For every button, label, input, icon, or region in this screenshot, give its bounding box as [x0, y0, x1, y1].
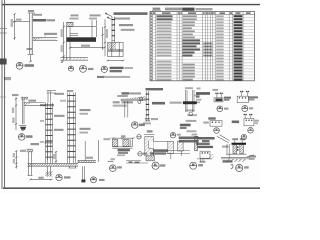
detail H cap — [21, 96, 28, 98]
S-mark and bubble bottom right — [231, 164, 249, 171]
eaves hatched strip 2 — [178, 141, 184, 151]
roof slab to left — [121, 98, 146, 100]
elevation posts inner dots — [237, 147, 239, 148]
detail C bubble title dark text — [110, 67, 124, 69]
eaves hatched strip 1 — [168, 141, 174, 153]
detail A wall double line — [29, 13, 31, 55]
detail B left dim — [63, 22, 65, 60]
detail H slab right — [24, 102, 45, 104]
column below slab left — [47, 166, 49, 175]
detail A annotation row1 — [33, 14, 42, 16]
detail J cap — [27, 148, 33, 150]
detail B top annotation rows — [71, 14, 79, 16]
junction text left — [170, 102, 182, 104]
row2 mid dark text — [232, 121, 239, 124]
left border tick y28 — [0, 28, 7, 30]
ladder right ties — [67, 95, 75, 162]
elevation leader right — [247, 155, 255, 157]
table small left caption — [153, 8, 161, 10]
hatch ticks below elevation — [227, 159, 230, 162]
eaves horizontal lines — [166, 150, 190, 152]
coping hatched block left — [112, 139, 117, 146]
left border tick y33 — [0, 32, 7, 34]
detail J top texts — [31, 143, 40, 145]
elevation dark top bar — [232, 143, 247, 145]
table narrow cols marks — [203, 43, 212, 57]
detail A wall tick pair — [27, 47, 33, 49]
detail A slab hatch — [33, 38, 44, 41]
sheet top border line — [2, 4, 261, 6]
detail A top text — [28, 10, 34, 12]
elevation left small text — [222, 146, 229, 148]
B2 marks right — [255, 120, 259, 122]
detail B horizontal dim — [70, 47, 105, 49]
detail C left dim — [102, 27, 104, 50]
detail C bottom dim — [108, 60, 124, 62]
coping hatched block right — [123, 139, 129, 146]
dark text right of wall — [152, 102, 165, 105]
ladder left side texts — [54, 115, 65, 117]
table colA bold first rows — [157, 15, 173, 20]
detail A bottom dim stub — [30, 55, 32, 62]
downstand wall below slab — [124, 101, 126, 118]
detail B bubble 1 — [68, 66, 73, 71]
detail A slab lines — [33, 37, 58, 39]
member top dim — [144, 134, 155, 136]
detail C foundation rect — [108, 43, 124, 57]
B1 bubble — [214, 128, 220, 134]
detail B mid ledge — [70, 33, 78, 35]
eaves bubble bottom — [190, 162, 203, 169]
table frame — [150, 11, 254, 80]
elevation hatched post 2 — [240, 145, 244, 154]
member base dark blob — [146, 156, 155, 161]
detail A bubble — [16, 62, 34, 69]
junction verticals — [185, 90, 187, 112]
roof detail left texts — [122, 92, 130, 94]
detail A slab text — [44, 33, 57, 35]
F2 small lintel drawing — [200, 151, 210, 158]
elevation left verticals — [226, 144, 228, 155]
row1 long dark text — [196, 92, 210, 95]
detail C bubble — [97, 66, 133, 78]
detail H bottom tick — [21, 130, 24, 131]
sheet left border double line — [1, 0, 3, 189]
detail H left dim — [15, 97, 17, 130]
dark label below elevation — [223, 160, 233, 162]
ladder left ties — [46, 108, 53, 162]
detail A left dim text — [16, 19, 22, 21]
detail A wall bottom cap — [28, 54, 34, 56]
table colC grey entries — [216, 15, 224, 80]
table title row — [165, 8, 183, 11]
elevation left diagonal leaders — [217, 136, 229, 143]
bubble mid x113 — [108, 158, 122, 171]
detail B bubble 2 with text — [80, 65, 94, 72]
coping bubble top — [137, 135, 141, 139]
detail C mid text — [119, 24, 133, 26]
ladder right top marks — [67, 90, 74, 92]
lintel A2 — [237, 91, 258, 103]
A1 text above — [213, 89, 219, 91]
coping right wall lines — [130, 139, 132, 146]
detail A wall cap — [28, 12, 36, 14]
detail J leader — [46, 145, 48, 161]
roof detail top dark text — [146, 88, 164, 90]
detail C foundation dark hatch — [108, 43, 116, 49]
A1 dark text right — [224, 97, 231, 99]
elevation mid line — [226, 153, 247, 155]
ladder left top text — [55, 93, 65, 95]
A2 leader dots above — [240, 91, 242, 93]
row1 left tiny texts — [197, 88, 201, 90]
detail C column ties — [112, 19, 115, 41]
ladder left rails — [45, 103, 47, 164]
coping lower lines — [112, 146, 132, 148]
B1 text left — [203, 122, 208, 124]
member beam notch — [149, 141, 154, 148]
roof detail tall wall — [145, 91, 147, 121]
dim text rows below slab — [113, 101, 120, 103]
elevation bottom lines — [221, 156, 249, 158]
member right dark text — [154, 149, 168, 152]
dim right of ladders — [84, 141, 86, 161]
ladder left top bracket — [47, 91, 49, 103]
ladder bubble left — [56, 174, 71, 180]
A2 bubble — [242, 106, 253, 112]
detail H bubble — [18, 134, 32, 141]
roof wall ties — [146, 94, 149, 119]
eaves stubs below — [170, 154, 172, 160]
detail J wall — [28, 152, 30, 176]
sheet bottom border line — [3, 187, 260, 189]
coping ground lines — [126, 160, 148, 163]
A2 dark text right — [249, 96, 259, 98]
table dark stripe column entries — [234, 15, 243, 80]
detail J right dim — [55, 151, 57, 163]
detail B right dim — [104, 19, 106, 56]
B2 leader dots above — [244, 114, 246, 116]
detail J text left — [20, 150, 26, 152]
coping top dim line — [113, 137, 133, 139]
left border small text — [4, 77, 11, 80]
small circle at junction — [138, 101, 141, 104]
detail A left dim vertical — [14, 14, 16, 40]
A1 leader dots above — [215, 93, 217, 95]
elevation tiny texts above — [232, 138, 238, 140]
detail B slab dark band — [67, 37, 97, 42]
left border tick y97 — [0, 96, 6, 98]
lintel A1 — [214, 98, 223, 102]
row2 dark text — [208, 117, 215, 119]
lintel B2 rect — [244, 118, 254, 125]
table colA text entries — [157, 21, 172, 80]
coping dim text — [121, 135, 126, 137]
bubble above elevation — [241, 134, 246, 139]
lintel B1 rect — [210, 121, 222, 127]
detail A annotation row2 dark — [33, 19, 46, 22]
coping bubble bottom — [138, 152, 148, 156]
detail B top edge line — [66, 26, 96, 28]
table colB bold mid rows — [183, 39, 201, 56]
detail B top-left block — [67, 22, 73, 26]
detail H slab text — [29, 100, 37, 102]
eaves annotation stack — [187, 114, 197, 116]
member right L-line — [153, 141, 167, 143]
detail H wall — [21, 99, 23, 124]
A1 bubble — [217, 106, 229, 112]
ladder right side texts — [80, 109, 91, 111]
roof detail bubble — [132, 122, 145, 129]
detail C top text rows — [114, 12, 148, 15]
detail J left dim — [15, 151, 17, 169]
left border hatched block — [0, 59, 7, 65]
small dark square on slab — [140, 98, 143, 101]
detail H top texts — [12, 94, 19, 96]
ground slab under ladders — [28, 138, 111, 182]
detail C column double line — [111, 17, 113, 43]
wall bottom cap — [145, 117, 150, 119]
bubble below member — [152, 162, 166, 169]
table horizontal lines — [150, 15, 254, 78]
table header text marks — [150, 12, 250, 14]
table colB text entries — [183, 15, 197, 80]
junction top tiny text — [185, 87, 193, 89]
small marks above bubble — [111, 158, 116, 160]
eaves bubble left — [170, 133, 181, 138]
ladder right below-slab cap — [69, 166, 71, 168]
junction lower marks — [186, 110, 194, 112]
ladder bubble right — [91, 177, 105, 183]
ladder right rails — [67, 93, 69, 164]
column below slab right — [82, 166, 84, 179]
table vertical lines — [152, 11, 243, 80]
table col1 row numbers — [151, 15, 153, 80]
detail B leader lines — [96, 20, 98, 37]
detail B footing lines — [61, 57, 89, 59]
detail B wall left — [66, 27, 68, 61]
detail C top leaders with dots — [105, 13, 107, 15]
coping dark text rows — [118, 149, 130, 152]
elevation hatched post 1 — [233, 145, 237, 154]
B2 bubble — [248, 128, 254, 134]
insulation wedge — [124, 96, 146, 99]
detail H footing — [19, 125, 27, 127]
detail A bubble label text — [25, 64, 35, 67]
junction dark bar — [183, 101, 197, 104]
detail J bottom dim — [31, 178, 52, 180]
